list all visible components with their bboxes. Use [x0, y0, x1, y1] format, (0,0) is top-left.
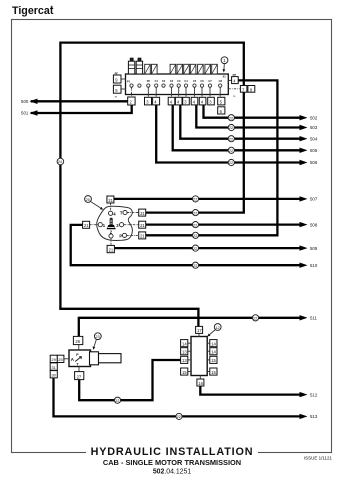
svg-text:21: 21: [140, 234, 145, 239]
svg-text:P2: P2: [147, 79, 151, 83]
svg-text:29: 29: [51, 357, 56, 362]
dash-dot lead to gauge boxes 7 8: [228, 88, 240, 90]
svg-text:504: 504: [310, 136, 318, 141]
hose tag 513: [176, 413, 182, 419]
svg-text:500: 500: [21, 99, 29, 104]
joystick port 1: [90, 223, 106, 228]
svg-text:P1: P1: [127, 80, 131, 84]
breather fitting (left bottle 2): [136, 58, 142, 74]
svg-text:22: 22: [229, 116, 233, 120]
hose tag 507: [192, 196, 198, 202]
port fitting 9 (lower): [113, 85, 126, 98]
callout 20 with leader arrow: [85, 196, 104, 210]
svg-text:14: 14: [182, 342, 187, 347]
wire: joystick T line: [145, 211, 245, 213]
fitting row under manifold: box 2: [128, 97, 135, 105]
fitting box 4: [153, 97, 160, 105]
svg-text:507: 507: [310, 197, 318, 202]
left fitting 13: [181, 348, 191, 355]
wire: top bus from left vertical to bus1: [60, 41, 243, 43]
svg-text:13: 13: [182, 358, 187, 363]
svg-text:508: 508: [310, 222, 318, 227]
port fitting 9 (upper): [113, 71, 126, 83]
fitting box 4: [199, 97, 206, 105]
arrowhead 503: [300, 125, 308, 130]
hose tag on left vertical: [57, 158, 64, 165]
arrowhead 510: [300, 263, 308, 268]
fitting box 6: [218, 107, 225, 114]
wire: manifold box4 to bus2 down to joystick P line: [238, 80, 278, 235]
svg-text:512: 512: [310, 392, 318, 397]
manifold port labels: [127, 75, 226, 84]
svg-text:22: 22: [193, 211, 197, 215]
svg-text:C1: C1: [155, 79, 159, 83]
arrowhead 500: [30, 99, 38, 104]
svg-text:21: 21: [84, 223, 89, 228]
fitting 27 (valve T port): [75, 367, 84, 380]
fitting 21 (port 3): [139, 221, 146, 228]
fitting box 4: [175, 97, 182, 105]
callout 1 with leader: [221, 57, 228, 73]
svg-text:PP: PP: [233, 73, 237, 77]
svg-text:13: 13: [182, 350, 187, 355]
hose tag 508: [192, 222, 198, 228]
svg-text:23: 23: [95, 334, 100, 339]
svg-text:510: 510: [310, 263, 318, 268]
svg-text:CAB - SINGLE MOTOR TRANSMISSIO: CAB - SINGLE MOTOR TRANSMISSION: [103, 458, 241, 467]
svg-text:22: 22: [177, 415, 181, 419]
svg-text:Tigercat: Tigercat: [12, 5, 54, 17]
hose tag 502: [228, 115, 234, 121]
hose tag P line: [192, 232, 198, 238]
joystick port 2: [109, 229, 113, 245]
wire: feed to bottom manifold box 17: [59, 309, 198, 327]
hose tag T line: [192, 210, 198, 216]
svg-text:21: 21: [140, 223, 145, 228]
fitting pair 29 / 25 (valve A port): [50, 355, 69, 362]
arrowhead 501: [30, 110, 38, 115]
svg-text:m: m: [233, 94, 236, 98]
svg-text:C6: C6: [200, 79, 204, 83]
hose tag 510: [192, 262, 198, 268]
callout 12 with leader: [207, 324, 221, 337]
svg-text:25: 25: [58, 357, 63, 362]
svg-text:P: P: [119, 234, 122, 239]
svg-text:501: 501: [21, 111, 29, 116]
joystick port 4: [109, 203, 117, 216]
fitting box 3: [145, 97, 152, 105]
right fitting 14: [207, 348, 217, 355]
wire: valve 27 return to bottom manifold port 13: [79, 360, 181, 400]
arrowhead 502: [300, 115, 308, 120]
right fitting 15: [207, 368, 217, 375]
svg-text:17: 17: [197, 328, 202, 333]
svg-text:C4: C4: [184, 79, 188, 83]
svg-text:m: m: [115, 95, 118, 99]
svg-text:26: 26: [75, 339, 80, 344]
joystick port T: [120, 210, 139, 215]
arrowhead 507: [300, 196, 308, 201]
wire: hose 502: [204, 105, 301, 118]
svg-text:21: 21: [140, 211, 145, 216]
svg-text:22: 22: [193, 247, 197, 251]
svg-text:14: 14: [211, 350, 216, 355]
solenoid valve body: [69, 350, 91, 367]
svg-text:506: 506: [310, 160, 318, 165]
svg-text:22: 22: [193, 223, 197, 227]
fitting 21 (port P): [139, 232, 146, 239]
valve manifold U1 body: [126, 74, 229, 95]
svg-text:X1: X1: [223, 75, 227, 79]
svg-text:511: 511: [310, 316, 318, 321]
wire: hose 500: [31, 100, 128, 102]
fitting box 5: [218, 97, 225, 105]
svg-text:C7: C7: [208, 79, 212, 83]
arrowhead 506: [300, 160, 308, 165]
svg-text:24: 24: [58, 160, 62, 164]
bottom manifold body: [191, 337, 207, 376]
right fitting 15: [207, 356, 217, 363]
wire: hose 507 from joystick port 4: [114, 198, 301, 200]
wire: hose 512 from box 16: [200, 386, 300, 395]
wire: hose 501: [31, 105, 132, 113]
hose tag 509: [192, 245, 198, 251]
fitting 21 (port 2): [107, 245, 114, 252]
svg-text:513: 513: [310, 414, 318, 419]
svg-text:30: 30: [51, 373, 56, 378]
svg-text:ISSUE 1/1121: ISSUE 1/1121: [304, 456, 333, 461]
joystick port P: [119, 233, 138, 238]
svg-text:C2: C2: [162, 79, 166, 83]
fitting 21 (port T): [139, 209, 146, 216]
breather fitting (left bottle 1): [128, 58, 134, 74]
fitting box 4: [191, 97, 198, 105]
arrowhead 513: [300, 414, 308, 419]
gauge box 7: [240, 86, 247, 93]
svg-text:505: 505: [310, 148, 318, 153]
arrowhead 509: [300, 245, 308, 250]
wire: hose 508 from joystick port 3: [145, 223, 300, 225]
hose tag valve return: [114, 397, 120, 403]
arrowhead 504: [300, 136, 308, 141]
Tigercat logo: [12, 4, 54, 17]
title block: [86, 444, 258, 476]
fitting 30: [50, 371, 57, 378]
wire: hose 505: [173, 105, 301, 150]
svg-text:®: ®: [50, 4, 53, 9]
right fitting 14: [207, 340, 217, 347]
svg-text:21: 21: [108, 198, 113, 203]
fitting 16 (bottom): [197, 376, 204, 387]
svg-text:15: 15: [211, 370, 216, 375]
wire: hose 504: [180, 105, 300, 139]
wire: hose 513 from box 30: [54, 377, 301, 416]
svg-text:22: 22: [229, 161, 233, 165]
callout 23 with leader: [93, 333, 102, 350]
svg-text:502.04.1251: 502.04.1251: [153, 468, 191, 475]
joystick port 3: [116, 223, 138, 228]
joystick pilot valve body: [97, 206, 133, 240]
arrowhead 505: [300, 148, 308, 153]
wire: joystick P line: [145, 234, 278, 236]
manifold port circles with stems: [130, 84, 222, 97]
svg-text:21: 21: [109, 247, 114, 252]
wire: hose 510 from joystick port 1: [71, 225, 301, 265]
wire: hose 509 from joystick port 2: [114, 247, 300, 249]
svg-text:22: 22: [229, 137, 233, 141]
solenoid cartridge: [90, 352, 122, 365]
fitting box 4 (manifold right port): [228, 73, 238, 84]
fitting 26 (valve P port): [73, 336, 82, 350]
svg-text:27: 27: [77, 374, 82, 379]
hose tag 505: [228, 147, 234, 153]
hose tag 511: [252, 315, 258, 321]
svg-text:16: 16: [198, 381, 203, 386]
svg-text:C3: C3: [177, 79, 181, 83]
hose tag 506: [228, 159, 234, 165]
svg-text:22: 22: [193, 264, 197, 268]
wire: hose 511 and valve 26 feed: [79, 317, 300, 337]
svg-text:C8: C8: [219, 79, 223, 83]
svg-text:502: 502: [310, 115, 318, 120]
svg-text:22: 22: [193, 234, 197, 238]
fitting 21 (port 1): [83, 221, 90, 228]
wire: bus1 down to joystick T line: [243, 42, 245, 213]
arrowhead 512: [300, 392, 308, 397]
svg-text:31: 31: [51, 365, 56, 370]
svg-text:22: 22: [115, 399, 119, 403]
svg-text:T: T: [120, 211, 123, 216]
fitting box 3: [208, 97, 215, 105]
svg-text:PF: PF: [115, 71, 119, 75]
svg-text:15: 15: [182, 370, 187, 375]
wire: main left vertical (hose 24): [59, 42, 61, 309]
arrowhead 511: [300, 315, 308, 320]
fitting 21 (port 4): [107, 196, 114, 203]
fitting box 3: [183, 97, 190, 105]
left fitting 13 (return): [181, 356, 191, 363]
gauge box 8: [248, 86, 255, 93]
svg-text:15: 15: [211, 358, 216, 363]
svg-text:HYDRAULIC INSTALLATION: HYDRAULIC INSTALLATION: [91, 446, 254, 458]
svg-text:22: 22: [229, 126, 233, 130]
fitting 17 (top): [196, 326, 203, 337]
arrowhead 508: [300, 222, 308, 227]
svg-text:C5: C5: [193, 79, 197, 83]
svg-text:509: 509: [310, 246, 318, 251]
hose tag 503: [228, 124, 234, 130]
svg-text:12: 12: [215, 325, 220, 330]
svg-text:22: 22: [193, 198, 197, 202]
test coupler row on manifold top: [145, 64, 218, 74]
wire: hose 503: [196, 105, 300, 128]
svg-text:C2: C2: [170, 79, 174, 83]
svg-text:14: 14: [211, 342, 216, 347]
svg-text:22: 22: [229, 149, 233, 153]
svg-text:22: 22: [253, 317, 257, 321]
fitting box 4: [168, 97, 175, 105]
left fitting 14: [181, 340, 191, 347]
fitting 31: [50, 363, 57, 370]
wire: hose 506: [156, 105, 300, 163]
joystick handle icon: [107, 218, 116, 230]
hose tag 504: [228, 136, 234, 142]
svg-text:20: 20: [86, 197, 91, 202]
svg-text:503: 503: [310, 125, 318, 130]
left fitting 15: [181, 368, 191, 375]
